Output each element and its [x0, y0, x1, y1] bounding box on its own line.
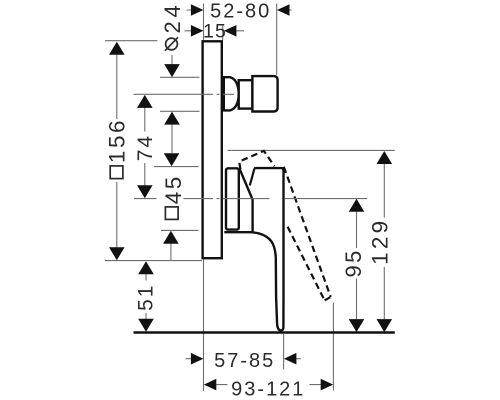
extension line: sleeve top (sq45) [154, 166, 199, 168]
raised lever (dashed) head [239, 151, 274, 169]
svg-text:129: 129 [367, 218, 392, 265]
baseline (wall / reference plane) [134, 331, 395, 333]
dimension line sq156 [116, 54, 118, 248]
extension line: raised lever tip (93-121) [332, 303, 334, 391]
square symbol for 45 [165, 207, 178, 220]
lever handle body fill [240, 168, 284, 330]
svg-text:74: 74 [134, 134, 157, 161]
lever handle internal edge [240, 169, 253, 232]
svg-text:15: 15 [203, 21, 227, 43]
svg-text:52-80: 52-80 [210, 0, 271, 22]
wall plate [203, 41, 222, 258]
svg-text:95: 95 [341, 248, 366, 277]
dimension line 129 [383, 164, 385, 320]
raised lever (dashed) blade right edge [284, 167, 331, 297]
extension line: lever tip below baseline [283, 334, 285, 370]
svg-text:45: 45 [161, 174, 186, 204]
lever cartridge sleeve [226, 168, 239, 229]
dimension arrows sq45 (outside) [170, 244, 172, 261]
extension line: lever raised apex (129 top) [228, 149, 395, 151]
shut-off knob neck [239, 80, 253, 108]
dimension line 74 [144, 107, 146, 185]
svg-text:24: 24 [160, 1, 185, 33]
lever head leading edge [250, 169, 255, 186]
dimension 52-80 arrows [187, 9, 292, 11]
dimension 57-85 arrows [186, 358, 301, 360]
shut-off knob base bulge [224, 77, 239, 110]
svg-text:57-85: 57-85 [214, 350, 275, 372]
extension line: sleeve bottom (sq45) [161, 229, 199, 231]
extension line: wall face below plate [203, 259, 205, 391]
svg-text:93-121: 93-121 [231, 378, 305, 400]
lever handle outline [224, 168, 283, 330]
cartridge centerline / 95 extension [134, 198, 367, 200]
extension line: plate bottom [105, 260, 202, 262]
shut-off knob cap [252, 76, 277, 111]
svg-text:51: 51 [135, 284, 158, 311]
extension line: knob cap end (52-80) [276, 4, 278, 75]
extension line: wall face above plate [203, 4, 205, 41]
raised lever (dashed) blade left edge [288, 227, 325, 301]
extension line: plate front face (15) [222, 25, 224, 41]
dimension 93-121 arrows (inside) [216, 384, 321, 386]
diameter symbol [166, 38, 178, 50]
raised lever (dashed) tip [325, 297, 331, 301]
dimension line 95 [356, 211, 358, 319]
dimension line 51 [145, 274, 147, 319]
extension line: plate top (left of plate) [105, 40, 157, 42]
svg-text:156: 156 [105, 118, 130, 163]
knob centerline [134, 93, 235, 95]
extension line: knob top (d24) [160, 76, 200, 78]
square symbol for 156 [110, 166, 123, 179]
extension line: knob bottom (d24) [160, 110, 200, 112]
dimension 15 arrows [185, 30, 245, 32]
dimension arrows d24 (outside) [171, 55, 173, 153]
